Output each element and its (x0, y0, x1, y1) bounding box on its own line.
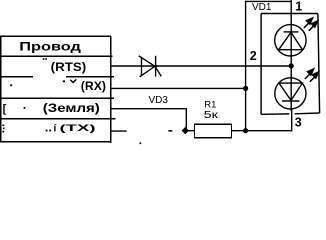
rail dash remnant (168, 130, 172, 132)
LED VD1.2 (bottom) (275, 78, 306, 109)
svg-text:(ТХ): (ТХ) (60, 123, 96, 134)
faded fragment RTS row (43, 58, 45, 60)
speck (140, 142, 142, 144)
table row separators (0, 56, 115, 118)
wire stub TX row (111, 130, 127, 132)
LED VD1.1 (top) (275, 25, 306, 56)
junction node RX/vertical (243, 86, 248, 91)
diode VD2 on RTS line (139, 56, 162, 77)
VD1 component body box (261, 14, 320, 115)
svg-text:(RX): (RX) (81, 79, 106, 93)
wire RTS row through diode to pin2 junction (111, 65, 291, 67)
svg-text:(Земля): (Земля) (43, 101, 100, 115)
svg-text:2: 2 (250, 49, 257, 63)
svg-text:VD1: VD1 (252, 2, 272, 13)
faded fragments RX row (10, 84, 12, 86)
bottom rail left (diamond to resistor) (182, 130, 195, 132)
bottom rail right (resistor to pin3 corner) (232, 108, 292, 131)
junction diamond (182, 127, 189, 134)
svg-text:R1: R1 (204, 99, 216, 110)
svg-text:1: 1 (295, 0, 302, 14)
wire RX row (111, 87, 246, 89)
svg-text:(RTS): (RTS) (51, 60, 86, 74)
emission arrows top LED (304, 18, 318, 31)
svg-text:VD3: VD3 (149, 95, 169, 106)
resistor R1 body (195, 124, 232, 138)
svg-text:Провод: Провод (19, 40, 81, 54)
svg-text:[: [ (3, 103, 7, 115)
junction node rail/vertical (243, 128, 248, 133)
emission arrows bottom LED (305, 69, 319, 82)
svg-text:3: 3 (295, 116, 302, 130)
LED column wire pin1 to pin3 (290, 0, 292, 111)
wire Земля row (111, 108, 187, 131)
junction node pin2 / LED midpoint (289, 63, 294, 68)
svg-text:5к: 5к (204, 110, 219, 121)
vertical net wire and top hookup wire (245, 1, 292, 131)
faded fragments TX row (2, 125, 4, 127)
connector table box (0, 36, 111, 143)
